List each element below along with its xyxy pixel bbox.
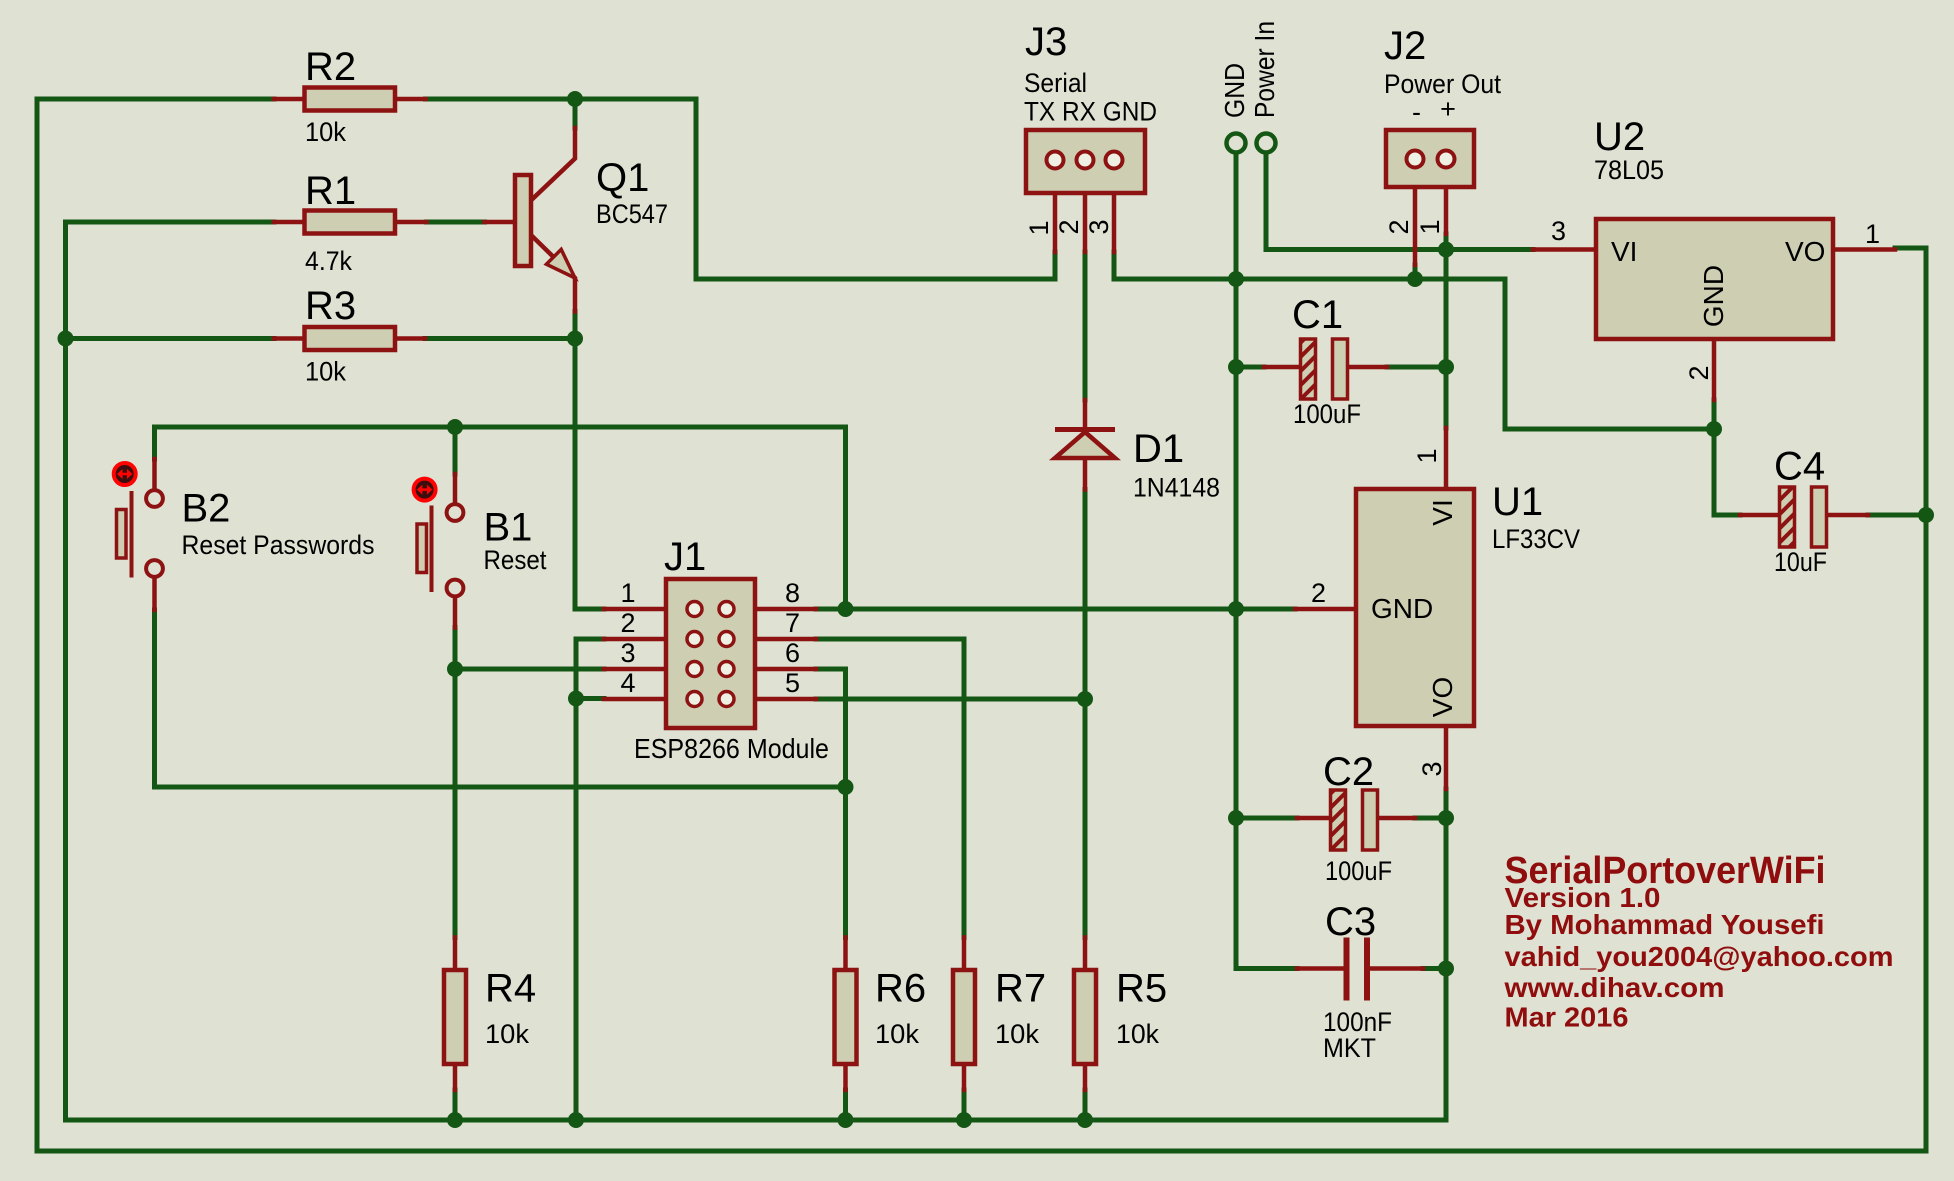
svg-text:3: 3 (621, 638, 636, 668)
svg-text:8: 8 (785, 578, 800, 608)
svg-text:6: 6 (785, 638, 800, 668)
wire top row y427 (155, 425, 846, 430)
junction R3/emitter (567, 331, 583, 347)
capacitor C4 plates (1780, 487, 1795, 547)
wire B1 top stub (453, 427, 458, 474)
wire J1 pin8 bus to U1 GND (816, 607, 1295, 612)
svg-text:D1: D1 (1133, 427, 1184, 471)
junction bus pin2 column (568, 1112, 584, 1128)
junction C2 left (1228, 810, 1244, 826)
diode D1 triangle (1055, 432, 1115, 458)
svg-text:100uF: 100uF (1293, 399, 1361, 429)
junction C1 left (1228, 359, 1244, 375)
svg-text:1: 1 (1024, 220, 1054, 235)
capacitor C2 plates (1331, 790, 1346, 850)
junction C2 right (1438, 810, 1454, 826)
junction GND column/main bus (1228, 601, 1244, 617)
wire C3 right stub (1423, 966, 1446, 971)
svg-text:C3: C3 (1325, 900, 1376, 944)
wire C2 right stub (1415, 816, 1446, 821)
resistor R3 leads (274, 336, 425, 341)
wire R1 right to base (427, 220, 485, 225)
button B1 terminals (447, 504, 464, 521)
junction C4 right/border (1918, 507, 1934, 523)
svg-text:R3: R3 (305, 284, 356, 328)
wire D1 to R5 (1083, 490, 1088, 938)
junction pin5/D1 (1077, 691, 1093, 707)
svg-text:C2: C2 (1323, 750, 1374, 794)
button B1 actuator icon (414, 479, 436, 501)
svg-text:100uF: 100uF (1325, 856, 1392, 886)
svg-text:C1: C1 (1292, 293, 1343, 337)
junction J2 pin1/PowerIn (1438, 242, 1454, 258)
svg-text:U1: U1 (1492, 480, 1543, 524)
svg-text:R6: R6 (875, 967, 926, 1011)
svg-text:2: 2 (1054, 219, 1084, 234)
svg-text:VI: VI (1611, 236, 1637, 267)
svg-text:2: 2 (1311, 578, 1326, 608)
wire C1 right stub (1387, 365, 1446, 370)
transistor Q1 emitter lead (533, 237, 575, 312)
svg-text:10k: 10k (1116, 1019, 1159, 1049)
button B1 plunger (430, 506, 434, 593)
svg-text:VI: VI (1427, 499, 1458, 525)
diode D1 leads (1083, 400, 1088, 490)
transistor Q1 emitter arrow (546, 249, 575, 278)
capacitor C3 plates (1344, 938, 1350, 1001)
regulator U1 box (1356, 489, 1474, 726)
junction B1 top (447, 419, 463, 435)
button B2 body (117, 510, 127, 559)
resistor R6 body (835, 970, 857, 1064)
junction bus R7 (956, 1112, 972, 1128)
svg-text:J3: J3 (1025, 20, 1067, 64)
svg-text:J1: J1 (664, 535, 706, 579)
junction J2 pin2 (1407, 271, 1423, 287)
svg-text:1: 1 (1415, 219, 1445, 234)
resistor R1 leads (274, 220, 427, 225)
junction B1 bottom (447, 661, 463, 677)
resistor R2 leads (274, 97, 426, 102)
svg-text:7: 7 (785, 608, 800, 638)
button B2 terminals (146, 490, 163, 507)
svg-text:GND: GND (1371, 593, 1433, 624)
resistor R4 body (444, 970, 466, 1064)
wire R1 left, inner-left vertical, ground bus, up to U1 VO (66, 222, 1447, 1120)
svg-text:3: 3 (1084, 219, 1114, 234)
resistor R6 leads (843, 938, 848, 1091)
wire U2 GND pin down to C4 (1714, 400, 1740, 515)
svg-text:1N4148: 1N4148 (1133, 473, 1220, 503)
svg-text:4: 4 (621, 668, 636, 698)
wire J3 pin2 to D1 (1083, 252, 1088, 400)
junction J1 pin8 (838, 601, 854, 617)
button B2 actuator icon (114, 463, 136, 485)
wire GND pad down to C3 (1236, 154, 1297, 969)
wire R3 right to emitter junction (425, 336, 575, 341)
svg-text:+: + (1440, 94, 1456, 124)
wire R3 left (66, 336, 275, 341)
svg-text:BC547: BC547 (596, 199, 668, 229)
svg-text:ESP8266 Module: ESP8266 Module (634, 733, 829, 764)
svg-text:TX RX GND: TX RX GND (1024, 97, 1157, 127)
svg-text:MKT: MKT (1323, 1033, 1376, 1063)
junction C3 right (1438, 961, 1454, 977)
junction R3 left (58, 331, 74, 347)
connector J2 pin circles (1407, 151, 1455, 168)
svg-text:78L05: 78L05 (1594, 155, 1664, 185)
svg-text:4.7k: 4.7k (305, 246, 352, 276)
svg-text:By Mohammad Yousefi: By Mohammad Yousefi (1505, 909, 1825, 940)
junction C1 right (1438, 359, 1454, 375)
svg-text:-: - (1412, 97, 1421, 127)
button B1 body (417, 524, 427, 573)
svg-text:Power In: Power In (1249, 21, 1280, 118)
junction bus R4 (447, 1112, 463, 1128)
wire R5 bottom stub (1083, 1090, 1088, 1120)
svg-text:3: 3 (1417, 761, 1447, 776)
svg-text:LF33CV: LF33CV (1492, 524, 1580, 554)
resistor R3 (305, 327, 396, 350)
svg-text:vahid_you2004@yahoo.com: vahid_you2004@yahoo.com (1505, 941, 1894, 972)
regulator U1 pin leads (1295, 428, 1446, 789)
label J3 pin numbers (1024, 219, 1114, 235)
junction bus R6 (838, 1112, 854, 1128)
svg-text:Reset Passwords: Reset Passwords (182, 530, 375, 560)
connector J1 pin leads (604, 609, 686, 699)
svg-text:GND: GND (1698, 265, 1729, 327)
regulator U2 pin leads (1533, 250, 1895, 401)
wire B1 bottom to J1 pin3 (455, 667, 604, 672)
label J2 pin numbers (1384, 219, 1445, 234)
wire J1 pin4 stub (576, 696, 604, 701)
svg-text:2: 2 (1684, 365, 1714, 380)
resistor R5 body (1074, 970, 1096, 1064)
connector J3 pin circles (1047, 152, 1123, 169)
svg-text:B1: B1 (484, 506, 533, 550)
svg-text:1: 1 (621, 578, 636, 608)
svg-text:10k: 10k (875, 1019, 919, 1049)
svg-text:10k: 10k (305, 357, 346, 387)
connector J2 pin leads (1415, 169, 1446, 266)
regulator U2 box (1596, 219, 1833, 339)
svg-text:3: 3 (1551, 216, 1566, 246)
wire C1 left stub (1236, 365, 1264, 370)
svg-text:VO: VO (1785, 236, 1825, 267)
resistor R7 leads (962, 938, 967, 1091)
resistor R4 leads (453, 938, 458, 1091)
wire R6 bottom stub (843, 1090, 848, 1120)
wire J2 pin2 stub (1413, 265, 1418, 279)
wire collector stub (573, 99, 578, 128)
svg-text:R7: R7 (995, 967, 1046, 1011)
svg-text:U2: U2 (1594, 115, 1645, 159)
wire J1 pin7 to R7 (816, 639, 964, 938)
wire R7 bottom stub (962, 1090, 967, 1120)
svg-text:10k: 10k (485, 1019, 529, 1049)
transistor Q1 collector lead (533, 128, 575, 199)
svg-text:www.dihav.com: www.dihav.com (1503, 972, 1724, 1003)
wire R4 bottom stub (453, 1090, 458, 1120)
svg-text:1: 1 (1865, 219, 1880, 249)
wire J3 pin3 to U2 GND pin (1114, 252, 1714, 429)
svg-text:B2: B2 (182, 487, 231, 531)
wire J1 pin6 to R6 (816, 669, 846, 938)
connector J3 box (1026, 130, 1145, 193)
resistor R7 body (953, 970, 975, 1064)
wire emitter down to J1 pin1 (575, 312, 604, 610)
title block (1503, 850, 1893, 1033)
junction GND column/J3 row (1228, 271, 1244, 287)
connector J1 pin circles (687, 602, 734, 707)
svg-text:R5: R5 (1116, 967, 1167, 1011)
svg-text:J2: J2 (1384, 24, 1426, 68)
wire C4 right stub (1868, 513, 1926, 518)
capacitor C1 leads (1264, 365, 1387, 370)
wire C2 left stub (1236, 816, 1297, 821)
svg-text:GND: GND (1219, 63, 1250, 118)
svg-text:Serial: Serial (1024, 68, 1087, 98)
wire B2 bottom to pin6 column (155, 610, 846, 787)
diode D1 cathode bar (1055, 427, 1115, 432)
capacitor C2 leads (1297, 816, 1415, 821)
svg-text:R1: R1 (305, 169, 356, 213)
svg-text:R4: R4 (485, 967, 536, 1011)
svg-text:C4: C4 (1774, 445, 1825, 489)
resistor R5 leads (1083, 938, 1088, 1091)
wire R2 right to Q1 collector junction to J3 pin1 (426, 99, 1056, 279)
capacitor C4 leads (1740, 513, 1868, 518)
svg-text:10k: 10k (995, 1019, 1039, 1049)
wire J2 pin1 down to U1 VI (1444, 234, 1449, 428)
connector J2 box (1386, 130, 1474, 187)
svg-text:Reset: Reset (484, 545, 547, 575)
wire J1 pin2 down to bus (576, 639, 604, 1120)
LEADS (155, 99, 1896, 1090)
junction pin6/B2 row (838, 779, 854, 795)
resistor R2 (305, 88, 396, 111)
junction bus R5 (1077, 1112, 1093, 1128)
svg-text:Q1: Q1 (596, 156, 649, 200)
Power In pad (1257, 134, 1276, 153)
resistor R1 (305, 211, 396, 234)
wire B2 top stub (152, 427, 157, 459)
svg-text:10k: 10k (305, 117, 346, 147)
junction J1 pin4 (568, 691, 584, 707)
svg-text:2: 2 (621, 608, 636, 638)
junction U2 GND/C4 (1706, 421, 1722, 437)
connector J1 box (666, 579, 755, 728)
capacitor C3 leads (1297, 966, 1423, 971)
svg-text:10uF: 10uF (1774, 547, 1827, 577)
button B2 leads (152, 459, 157, 610)
svg-text:R2: R2 (305, 45, 356, 89)
svg-text:1: 1 (1412, 448, 1442, 463)
wire B1 bottom to R4 (453, 628, 458, 938)
svg-text:VO: VO (1427, 677, 1458, 717)
transistor Q1 body bar (515, 175, 531, 266)
button B2 plunger (130, 491, 134, 578)
junction R2/collector (567, 91, 583, 107)
connector J3 pin leads (1055, 171, 1114, 253)
button B1 leads (453, 474, 458, 628)
transistor Q1 base lead (485, 220, 514, 225)
wire top row to pin8 (843, 427, 848, 609)
svg-text:2: 2 (1384, 219, 1414, 234)
label J1 pin numbers (621, 578, 801, 698)
svg-text:Mar 2016: Mar 2016 (1505, 1002, 1629, 1033)
wire Power In pad to U2 VI (1266, 154, 1533, 250)
svg-text:5: 5 (785, 668, 800, 698)
capacitor C1 plates (1301, 339, 1316, 399)
wire J1 pin5 to D1 column (816, 697, 1085, 702)
GND pad (1227, 134, 1246, 153)
